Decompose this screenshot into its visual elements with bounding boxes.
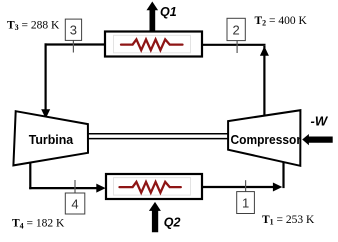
arrowhead right into HX2 <box>96 184 105 193</box>
wire bottom-right vertical (corner up to compressor) <box>282 162 284 189</box>
turbine body <box>13 111 88 165</box>
svg-text:3: 3 <box>70 23 77 38</box>
HX2 faint inner rect <box>114 178 191 196</box>
node 4 box <box>74 180 76 193</box>
wire bottom-left vertical (turbine down) <box>29 162 31 190</box>
wire top-right horizontal (HX1 to corner) <box>201 44 266 46</box>
resistor in HX2 <box>120 182 181 193</box>
-W block arrow <box>302 134 333 145</box>
svg-text:Turbina: Turbina <box>29 133 75 147</box>
svg-text:1: 1 <box>242 196 249 211</box>
wire right vertical (compressor top up to corner) <box>263 46 265 116</box>
svg-text:4: 4 <box>71 197 78 212</box>
arrowhead right at corner node1 side <box>273 183 282 192</box>
HX1 faint inner rect <box>114 35 191 53</box>
shaft turbine-compressor double line <box>88 133 229 135</box>
wire left vertical (node3 corner down to turbine) <box>44 43 46 110</box>
resistor in HX1 <box>121 39 183 50</box>
svg-text:Q2: Q2 <box>164 216 181 230</box>
wire top-left horizontal (node3 to HX1) <box>45 43 107 45</box>
arrowhead down into turbine <box>41 109 50 118</box>
wire bottom-left horizontal (to HX2) <box>29 187 97 189</box>
wire bottom-right horizontal (HX2 to corner) <box>201 186 274 188</box>
Q2 block arrow <box>149 202 161 232</box>
svg-text:Compressor: Compressor <box>231 133 302 147</box>
node 2 box <box>236 41 238 53</box>
svg-text:Q1: Q1 <box>160 5 177 19</box>
heat exchanger HX1 box (top) <box>105 32 202 57</box>
Q1 block arrow <box>147 2 159 32</box>
svg-text:2: 2 <box>233 22 240 37</box>
node 3 box <box>72 40 74 52</box>
compressor body <box>228 110 300 166</box>
svg-text:-W: -W <box>311 114 329 129</box>
node 1 box <box>245 180 247 191</box>
heat exchanger HX2 box (bottom) <box>106 174 202 199</box>
arrowhead up at corner node2 side <box>260 46 269 56</box>
